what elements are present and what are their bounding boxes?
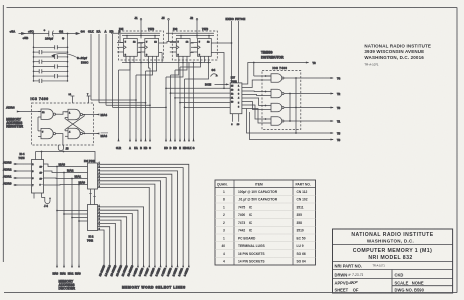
wire feedback vertical 1 [289, 93, 291, 122]
label MEMORY ADDRESS REGISTER [6, 117, 23, 128]
wire to IC7 pin y93.1 [170, 92, 231, 94]
nand gate IC3a [38, 109, 60, 119]
junction dot power feed [41, 151, 43, 153]
nand gate IC8d [265, 117, 341, 126]
wire word select MW14 from IC2 pin 7 [98, 227, 112, 277]
test point J5 [162, 16, 170, 42]
wire G1 out to G2 in [60, 112, 68, 114]
junction dot IC2 in4 [78, 220, 80, 222]
wire cross couple diagonal 2 [65, 118, 85, 135]
wire T3 output [250, 112, 341, 142]
wire signal drop x106.0 [106, 34, 151, 106]
wire word select MW3 from IC1 pin 4 [98, 174, 173, 277]
parts table row 10 [223, 260, 306, 264]
wire Q1 to J2 [141, 43, 145, 47]
wire bus line D [170, 75, 172, 150]
title block line 4 [333, 278, 453, 280]
wire IC4 bottom stubs [34, 193, 42, 199]
IC7 bottom pins [231, 114, 240, 127]
nand gate IC8c [265, 103, 341, 112]
nand gate IC3d [38, 128, 60, 138]
wire to IC7 pin y88.3 [165, 87, 230, 89]
IC4 pin numbers [32, 164, 42, 187]
wire jog to bus x175 [175, 63, 187, 71]
IC1 7442 decoder box [88, 163, 98, 189]
title block outer box [333, 229, 453, 293]
border frame bottom [4, 292, 457, 294]
parts table row 6 [223, 229, 304, 233]
parts table row 2 [223, 198, 308, 202]
wire IC7 pin to gate input [245, 90, 266, 93]
wire IC7 pin to gate input [245, 105, 266, 119]
node MA4bar output arrow [95, 133, 109, 138]
wire MA0 decoder drop [78, 185, 80, 268]
flip-flop Q1 7473 half [117, 39, 141, 57]
wire IC2 input 3 [72, 217, 88, 219]
parts table row 1 [223, 190, 308, 194]
wire signal drop x99.0 [99, 34, 146, 104]
jumper J4 loop [42, 198, 51, 209]
wire IC7 pin to gate input [245, 80, 266, 88]
wire bus line CLK [187, 63, 192, 151]
title block line 3 [333, 269, 453, 271]
wire ADR4 input [17, 111, 41, 113]
flip-flop pack IC5 7473 dashed box [119, 31, 164, 60]
junction dot MA0 tap [78, 184, 80, 186]
wire IC2 input 4 [79, 220, 88, 222]
wire EXEC drop [231, 21, 233, 83]
wire bus line B [140, 63, 142, 151]
wire word select MW6 from IC1 pin 7 [98, 184, 156, 277]
wire bus line KC [164, 77, 168, 150]
test point J1 [135, 16, 142, 36]
wire word select MW1 from IC1 pin 2 [98, 168, 185, 277]
wire ADR2 input [14, 170, 32, 172]
junction dot IC2 in1 [56, 210, 58, 212]
wire MA0 [44, 184, 88, 187]
IC7 pin numbers [231, 86, 240, 109]
node DCM arrow [205, 83, 229, 87]
parts table row 9 [223, 252, 306, 256]
junction dot IC2 in2 [63, 213, 65, 215]
wire IC5 to IC6 [162, 42, 176, 44]
IC7 right pin stubs [242, 84, 245, 109]
wire word select MW5 from IC1 pin 6 [98, 181, 162, 277]
border frame top [7, 7, 458, 9]
capacitor C3 .01uF [33, 50, 69, 54]
junction dot at G2 [67, 33, 69, 35]
wire left input vertical [37, 117, 39, 131]
wire jog to bus x166 [166, 63, 183, 78]
decoder IC7 7442 labels [231, 76, 237, 84]
flip-flop Q4 7473 half [191, 39, 215, 57]
capacitor C2 .01uF [33, 45, 69, 49]
power rail +5 [19, 32, 80, 34]
junction dot at +5C [33, 33, 35, 35]
wire word select MW12 from IC2 pin 5 [98, 220, 124, 277]
wire word select MW15 from IC2 pin 8 [98, 230, 107, 277]
flip-flop pack IC6 7473 dashed box [172, 31, 217, 60]
wire ADR1 input [14, 177, 32, 179]
wire bus line KB [144, 71, 148, 150]
IC4 7475 latch box [32, 160, 44, 194]
flip-flop Q3 7473 half [170, 39, 194, 57]
wire Y1 output [247, 109, 341, 136]
parts table column divider 2 [292, 180, 294, 265]
wire signal drop x91.0 [91, 34, 137, 101]
parts table row 3 [223, 206, 304, 210]
wire bus line A [129, 63, 131, 151]
wire MA1 decoder drop [71, 179, 73, 268]
wire jog to bus x180 [180, 63, 201, 68]
wire MA1 [44, 177, 88, 180]
junction dot IC2 in3 [71, 217, 73, 219]
title block vertical divider [391, 270, 393, 294]
capacitor C4 .01uF [33, 55, 69, 59]
jumper J3 loop [58, 145, 69, 151]
wire jog to bus x145.5 [146, 63, 157, 72]
wire bus line E [179, 67, 181, 150]
power stub pin 14 [69, 94, 75, 103]
wire IC4 top stubs [36, 152, 42, 160]
IC2 7442 decoder box [88, 205, 98, 231]
wire T0 tap down [253, 62, 271, 76]
nand gate IC8a [265, 74, 341, 83]
junction dot power feed 2 [63, 151, 65, 153]
border frame right [456, 8, 458, 293]
wire bus line C [149, 68, 151, 150]
wire cross couple diagonal 1 [65, 114, 85, 131]
parts table row 5 [223, 221, 302, 225]
flip-flop Q2 7473 half [138, 39, 162, 57]
IC8 dashed box [262, 71, 301, 130]
capacitor C5 .01uF [33, 60, 69, 64]
title block line 5 [392, 285, 453, 287]
wire word select MW10 from IC2 pin 3 [98, 214, 135, 277]
wire power feed to IC1 [36, 152, 96, 164]
wire bus line CLR [116, 70, 121, 150]
power stub pin 7 [87, 94, 91, 103]
wire feedback vertical 2 [295, 77, 297, 134]
parts table header underline [215, 187, 316, 189]
wire IC1 to IC2 stubs [89, 189, 96, 205]
nand gate IC3c [65, 128, 95, 138]
wire T0 output [245, 61, 316, 84]
wire IC7 pin to gate input [245, 98, 266, 106]
capacitor C1 100uF [44, 28, 54, 36]
title block line 1 [333, 244, 453, 246]
wire IC5 internal top bus [111, 33, 160, 38]
IC2 pin numbers [99, 205, 101, 230]
wire word select MW13 from IC2 pin 6 [98, 223, 118, 276]
capacitor C9 .01uF [33, 79, 69, 83]
junction dot MA1 tap [71, 178, 73, 180]
wire MA2 [44, 171, 88, 173]
wire word select MW2 from IC1 pin 3 [98, 171, 179, 277]
nand gate IC3b [65, 109, 95, 119]
wire bus line KA [134, 75, 138, 150]
wire IC6 internal top bus [166, 33, 214, 38]
capacitor C8 .01uF [33, 74, 69, 78]
wire to IC7 pin y97.9 [174, 97, 230, 99]
IC4 7475 label [19, 152, 25, 160]
wire IC2 input 1 [57, 210, 88, 212]
wire bus line KD [173, 70, 177, 150]
wire Q4bar down to IC7 [215, 53, 225, 90]
wire ADR0 input [14, 184, 32, 186]
wire under-box bus y62.5 [122, 62, 211, 64]
capacitor bank left bus wire [33, 34, 35, 81]
wire IC2 input 2 [64, 213, 88, 215]
label TIMING DISTRIBUTOR [261, 51, 284, 60]
wire bus line G [193, 63, 195, 151]
wire IC7 pin to gate input [245, 95, 266, 96]
capacitor C6 .01uF [33, 64, 69, 68]
wire B drop into IC5 [120, 34, 124, 43]
IC4 inner pin ticks [32, 164, 44, 185]
wire jog to bus x170.5 [171, 63, 179, 76]
wire FF bottom pin stubs [126, 56, 209, 62]
wire MA3 [44, 164, 88, 167]
wire word select MW4 from IC1 pin 5 [98, 178, 168, 277]
node MA4 output arrow [95, 113, 108, 117]
wire MA3 decoder drop [56, 167, 58, 268]
parts table row 7 [223, 237, 306, 241]
parts table column divider 1 [233, 180, 235, 265]
parts table row 4 [223, 213, 302, 217]
parts table faint row lines [215, 195, 316, 257]
parts table row 8 [222, 244, 304, 248]
junction dot MA3 tap [56, 166, 58, 168]
wire jog to bus x136 [136, 63, 153, 76]
capacitor bank right bus wire [67, 34, 69, 81]
wire to IC7 pin y102.6 [179, 102, 230, 104]
label NRI address block [364, 43, 431, 66]
decoder IC7 7442 box [230, 83, 242, 114]
wire word select MW7 from IC1 pin 8 [98, 187, 151, 276]
title block line 2 [333, 261, 453, 263]
parts table outer box [215, 180, 316, 265]
wire Q4 to EXEC vertical [215, 42, 233, 44]
IC1 pin numbers [99, 163, 101, 188]
IC2 7442 label [87, 235, 94, 243]
node G4 with jumper [211, 68, 219, 77]
junction dot MA2 tap [63, 172, 65, 174]
capacitor C7 .01uF [33, 69, 69, 73]
wire word select MW9 from IC2 pin 2 [98, 210, 139, 277]
test point J2 [190, 16, 198, 36]
wire jog to bus x150 [149, 63, 151, 69]
wire jog to bus x118.5 [119, 63, 131, 71]
wire FETCH drop [238, 21, 240, 83]
wire Q1 down [141, 43, 162, 63]
wire word select MW11 from IC2 pin 4 [98, 217, 129, 277]
wire IC7 pin to gate input [245, 102, 266, 110]
IC3 dashed box [32, 103, 94, 145]
wire ADR3 input [14, 163, 32, 165]
nand gate IC8b [265, 89, 341, 98]
wire word select MW0 from IC1 pin 1 [98, 164, 190, 277]
label MEMORY ADDRESS DECODER [59, 279, 76, 290]
page left scan edge [2, 5, 4, 262]
wire bus line KE [183, 79, 187, 150]
wire Q3 to J4 [194, 46, 198, 48]
label 8-.01uF DISC [51, 53, 89, 64]
wire IC7 pin to gate input [245, 109, 266, 124]
wire G4 out to J3 [60, 134, 63, 145]
wire jog to bus x184.5 [185, 63, 209, 80]
wire to IC7 pin y107.4 [184, 107, 231, 109]
wire signal drop x112.5 [113, 34, 167, 108]
wire MA2 decoder drop [63, 173, 65, 268]
wire word select MW8 from IC2 pin 1 [98, 207, 145, 277]
